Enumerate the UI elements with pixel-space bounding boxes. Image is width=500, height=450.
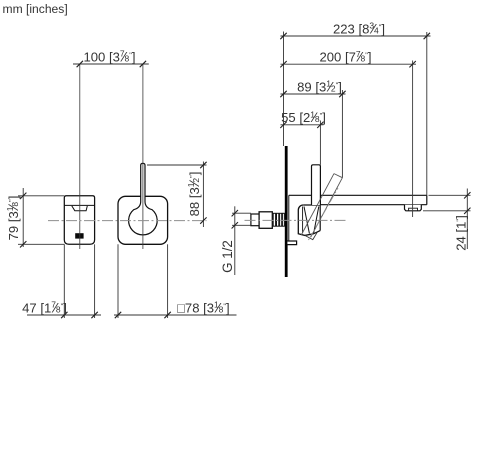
dim 79: tick bottom (20, 241, 26, 247)
dim 200: tick left (280, 61, 286, 67)
svg-text:24 [1"]: 24 [1"] (453, 215, 468, 250)
dim 79: line (22, 188, 24, 247)
dim 47: line (27, 314, 101, 316)
dim 89: line (281, 93, 346, 95)
svg-text:223 [83⁄4"]: 223 [83⁄4"] (333, 20, 385, 36)
spout arm top edge (289, 194, 427, 196)
svg-text:89 [31⁄2"]: 89 [31⁄2"] (297, 78, 342, 94)
dim 55: line (281, 124, 324, 126)
dim 47: tick right (91, 312, 97, 318)
ext 223 right (spout end) (426, 32, 428, 195)
G1/2 hex nut (259, 212, 272, 229)
valve dome top edge (303, 204, 320, 206)
dim 88: tick top (200, 162, 206, 168)
wall plate face line (288, 195, 290, 241)
spout outlet lip (trapezoid) (72, 206, 88, 211)
dim 223: line (281, 35, 431, 37)
svg-text:100 [37⁄8"]: 100 [37⁄8"] (83, 48, 135, 64)
dim square78: tick right (164, 312, 170, 318)
G1/2 nipple (251, 214, 259, 226)
dim 223: tick left (280, 33, 286, 39)
svg-text:47 [17⁄8"]: 47 [17⁄8"] (22, 299, 67, 315)
front horizontal centerline (48, 220, 207, 222)
dim 88: ext line top (from lever tip) (147, 164, 207, 166)
dim 88: line (202, 162, 204, 228)
dim square78: ext line left (117, 244, 119, 318)
dim square78: tick left (115, 312, 121, 318)
dim 24: tick top (464, 192, 470, 198)
ext 89 right (tilted lever tip) (341, 90, 343, 178)
dim 100: line (73, 63, 149, 65)
spout arm right edge (426, 195, 428, 204)
handle circle with lever stem (balloon outline) (129, 163, 158, 235)
svg-text:88 [31⁄2"]: 88 [31⁄2"] (186, 172, 202, 217)
thread ridge 2 (277, 213, 279, 226)
dim 47: ext line left (63, 244, 65, 318)
valve cone right line (314, 207, 319, 234)
spout arm bottom edge (320, 204, 427, 206)
valve dome inner left line (302, 207, 304, 234)
spout outlet slot (black) (75, 233, 83, 238)
spout vertical centerline / extension (79, 64, 81, 249)
dim 79: tick top (20, 193, 26, 199)
dim 89: tick right (339, 91, 345, 97)
dim 55: tick left (280, 122, 286, 128)
thread ridge 1 (273, 213, 275, 226)
dim 24: tick bottom (464, 208, 470, 214)
G1/2 tick bottom (232, 222, 238, 228)
lever tilted: end cap (334, 174, 342, 178)
svg-text:□78 [31⁄8"]: □78 [31⁄8"] (177, 299, 230, 315)
aerator insert detail (409, 208, 418, 211)
spout inner top line (64, 204, 94, 206)
dim square78: line (114, 314, 237, 316)
ext 24 top (arm top) (429, 194, 471, 196)
dim 100: tick right (140, 61, 146, 67)
aerator (side) (405, 205, 422, 211)
dim 47: tick left (61, 312, 67, 318)
dim 89: tick left (280, 91, 286, 97)
svg-text:200 [77⁄8"]: 200 [77⁄8"] (319, 49, 371, 65)
valve cone left line (304, 207, 309, 234)
thread ridge 4 (282, 213, 284, 226)
handle vertical centerline / extension (142, 64, 144, 249)
ext 223 left (wall) (283, 32, 285, 147)
lever tilted: dash-dot axis (309, 188, 339, 240)
G1/2 tick top (232, 210, 238, 216)
dim 79: ext line top (18, 195, 64, 197)
spout body (front) (64, 196, 94, 245)
aerator centerline / ext 200 (412, 61, 414, 218)
G1/2 leader line (234, 206, 236, 275)
lever vertical (solid position) (312, 165, 321, 205)
dim 55: tick right (317, 122, 323, 128)
dim square78: ext line right (167, 244, 169, 318)
dim 24: line (466, 189, 468, 250)
dim 100: tick left (77, 61, 83, 67)
lever tilted: right edge (311, 178, 343, 237)
ext 55 right (upright lever) (319, 121, 321, 165)
valve bottom wedge (305, 232, 318, 240)
svg-text:55 [21⁄8"]: 55 [21⁄8"] (281, 109, 326, 125)
handle escutcheon (rounded square) (118, 196, 168, 244)
ext 24 bottom (aerator bottom) (423, 210, 471, 212)
dim 200: tick right (409, 61, 415, 67)
valve dome right edge (319, 205, 321, 231)
plate foot (287, 241, 296, 245)
svg-text:79 [31⁄8"]: 79 [31⁄8"] (5, 196, 21, 241)
dim 47: ext line right (94, 244, 96, 318)
dim 223: tick right (424, 33, 430, 39)
side horizontal centerline (245, 219, 347, 221)
svg-text:G 1/2: G 1/2 (220, 240, 235, 273)
G1/2 ext bottom (232, 224, 251, 226)
valve dome outer profile (298, 205, 320, 235)
wall (thick line) (285, 146, 288, 277)
G1/2 ext top (232, 212, 251, 214)
thread ridge 3 (280, 213, 282, 226)
dim 200: line (281, 63, 417, 65)
dim 79: ext line bottom (18, 243, 64, 245)
svg-text:mm [inches]: mm [inches] (3, 2, 68, 16)
lever tilted: left edge (301, 174, 334, 235)
dim 88: tick bottom (200, 217, 206, 223)
